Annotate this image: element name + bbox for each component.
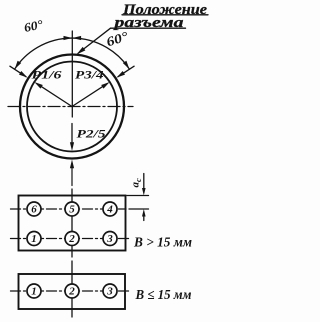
contact 3 circle (small connector)	[103, 284, 117, 298]
radial P3/4 line	[72, 84, 107, 106]
svg-text:4: 4	[106, 204, 113, 216]
svg-text:Р2/5: Р2/5	[77, 127, 106, 141]
svg-text:5: 5	[69, 204, 75, 216]
svg-text:3: 3	[106, 233, 113, 245]
a_c extension line top	[127, 195, 149, 197]
svg-text:Р1/6: Р1/6	[32, 70, 62, 82]
a_c dimension line upper segment	[143, 174, 145, 190]
rect2 vertical center line	[71, 261, 73, 317]
radial P2/5 arrow	[71, 143, 73, 145]
contact 5 circle	[65, 202, 79, 216]
rect1 vertical center line	[71, 189, 73, 257]
a_c lower arrowhead pointing up	[142, 209, 146, 217]
arc arrowhead right of vertical line	[72, 36, 81, 40]
contact 4 circle	[103, 202, 117, 216]
svg-text:2: 2	[68, 233, 75, 245]
right radial extension line	[118, 66, 134, 77]
vertical center line (lower dash)	[71, 124, 73, 145]
rect1 row B center line	[11, 238, 131, 240]
vertical center line (upper)	[71, 31, 73, 117]
svg-text:1: 1	[31, 233, 37, 245]
rect1 row A center line	[11, 208, 127, 210]
connector rectangle B>15	[19, 196, 126, 251]
contact 6 circle	[27, 202, 41, 216]
left radial extension line	[10, 66, 26, 77]
contact 1 circle (small connector)	[27, 284, 41, 298]
contact 1 circle	[27, 232, 41, 246]
svg-text:В > 15 мм: В > 15 мм	[133, 235, 192, 250]
svg-text:2: 2	[68, 286, 75, 298]
svg-text:3: 3	[106, 286, 113, 298]
arc right end arrowhead	[123, 61, 130, 69]
underline of word razjoma	[111, 27, 186, 29]
P3/4 arrowhead	[101, 82, 110, 89]
svg-text:В ≤ 15 мм: В ≤ 15 мм	[135, 287, 192, 302]
60 degree dimension arc	[15, 38, 130, 69]
label a_c rotated	[130, 178, 144, 188]
leader line from label to circle top	[78, 28, 111, 53]
arrow below circle pointing up	[71, 166, 73, 186]
svg-text:6: 6	[31, 204, 37, 216]
inner circle (contact circle)	[27, 62, 117, 152]
rect2 row center line	[11, 290, 130, 292]
outer circle (connector body)	[20, 55, 124, 159]
svg-text:1: 1	[31, 286, 37, 298]
contact 3 circle	[103, 232, 117, 246]
arc arrowhead left of vertical line	[64, 36, 73, 40]
connector rectangle B<=15	[19, 274, 126, 309]
leader arrowhead	[77, 47, 86, 55]
horizontal center line	[8, 106, 133, 108]
P1/6 arrowhead	[34, 82, 43, 89]
radial P1/6 line	[38, 84, 73, 106]
left outer arrowhead (points at outer circle)	[19, 71, 28, 78]
contact 2 circle (small connector)	[65, 284, 79, 298]
underline of word polozhenie	[122, 14, 208, 16]
arc left end arrowhead	[15, 61, 22, 69]
svg-text:Р3/4: Р3/4	[75, 70, 104, 82]
contact 2 circle	[65, 232, 79, 246]
a_c upper arrowhead pointing down	[142, 188, 146, 196]
right outer arrowhead (points at outer circle)	[117, 71, 126, 78]
a_c dimension line lower segment	[143, 216, 145, 221]
